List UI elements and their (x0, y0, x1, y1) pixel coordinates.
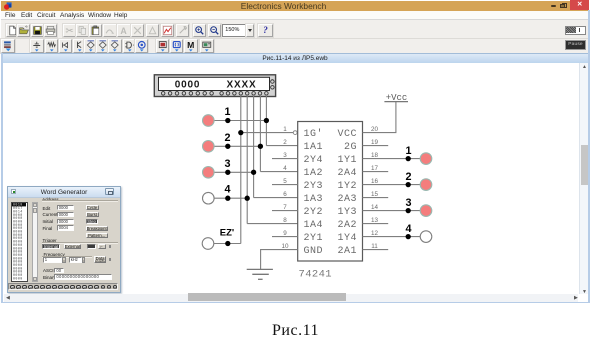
svg-text:10: 10 (281, 243, 289, 250)
label EZ' (220, 228, 234, 239)
pause button (565, 40, 586, 50)
pin 5 stub (272, 184, 298, 186)
svg-text:2Y4: 2Y4 (304, 155, 324, 166)
pin 9 stub (272, 236, 298, 238)
svg-text:3: 3 (405, 197, 411, 209)
ground symbol (247, 269, 273, 279)
label 4 (left) (224, 184, 230, 196)
pin 11 stub (363, 249, 389, 251)
svg-text:1Y2: 1Y2 (337, 181, 357, 192)
svg-text:2A3: 2A3 (337, 194, 357, 205)
svg-text:2A1: 2A1 (337, 246, 357, 257)
svg-text:1Y4: 1Y4 (337, 233, 357, 244)
svg-text:12: 12 (371, 230, 379, 237)
wire to pin 8 (247, 223, 298, 225)
wire vertical V3 (data bit 3) (253, 95, 255, 198)
toolbar row 2 (1, 38, 589, 53)
IC U1 part number 74241 (299, 269, 333, 281)
node dot probe 3 (225, 170, 230, 175)
svg-text:9: 9 (283, 230, 287, 237)
wire probe 4 row (214, 197, 248, 199)
pin number labels (left side) (281, 126, 289, 250)
svg-text:16: 16 (371, 178, 379, 185)
wire pin 20 to +Vcc (363, 102, 396, 133)
label 3 (right) (405, 197, 411, 209)
junction dot row 4/V2 (245, 196, 250, 201)
label 1 (right) (405, 145, 411, 157)
svg-text:15: 15 (371, 191, 379, 198)
label 2 (right) (405, 171, 411, 183)
probe indicator 4 (right) (420, 231, 432, 243)
wire vertical V4 (data bit 2) (259, 95, 261, 172)
svg-text:74241: 74241 (299, 269, 333, 281)
pin 3 stub (272, 158, 298, 160)
svg-text:2A2: 2A2 (337, 220, 357, 231)
toolbar row 1 (1, 19, 589, 39)
junction dot pin1/V1 (238, 130, 243, 135)
node dot probe 1 (225, 118, 230, 123)
junction dot row 3/V3 (251, 170, 256, 175)
probe indicator 2 (left) (203, 141, 215, 153)
svg-text:VCC: VCC (337, 129, 357, 140)
svg-text:8: 8 (283, 217, 287, 224)
svg-text:6: 6 (283, 191, 287, 198)
junction dot row 2/V4 (258, 144, 263, 149)
svg-text:20: 20 (371, 126, 379, 133)
label 4 (right) (405, 223, 411, 235)
svg-text:+Vcc: +Vcc (386, 93, 408, 103)
wire vertical V5 (data bit 1) (265, 95, 267, 146)
svg-text:XXXX: XXXX (227, 79, 257, 90)
node dot output 2 (406, 182, 411, 187)
wire probe 3 row (214, 171, 254, 173)
svg-text:4: 4 (224, 184, 230, 196)
svg-text:1A4: 1A4 (304, 220, 324, 231)
svg-text:1A1: 1A1 (304, 142, 324, 153)
application window titlebar (1, 1, 589, 11)
wire probe 2 row (214, 145, 260, 147)
wire pin 14 to output probe 3 (363, 210, 421, 212)
node dot output 3 (406, 208, 411, 213)
label 2 (left) (224, 132, 230, 144)
svg-text:4: 4 (405, 223, 411, 235)
svg-text:14: 14 (371, 204, 379, 211)
power switch (565, 26, 587, 35)
svg-text:17: 17 (371, 165, 379, 172)
svg-text:1G': 1G' (304, 128, 324, 140)
svg-text:19: 19 (371, 139, 379, 146)
svg-text:2Y3: 2Y3 (304, 181, 324, 192)
pin 1 active-low bubble (293, 131, 297, 135)
svg-text:0000: 0000 (13, 276, 23, 280)
node dot probe 2 (225, 144, 230, 149)
label 3 (left) (224, 158, 230, 170)
svg-text:2Y1: 2Y1 (304, 233, 324, 244)
probe indicator 2 (right) (420, 179, 432, 191)
svg-text:11: 11 (371, 243, 378, 250)
op IC U1 74241 body (298, 122, 363, 262)
app icon (4, 2, 12, 10)
svg-text:2: 2 (283, 139, 287, 146)
svg-text:0000: 0000 (175, 79, 200, 90)
probe indicator 1 (left) (203, 115, 215, 127)
svg-text:1: 1 (405, 145, 411, 157)
wire to pin 6 (254, 197, 298, 199)
svg-text:1A3: 1A3 (304, 194, 324, 205)
wire to pin 1 (1G) (241, 132, 293, 134)
wire vertical V2 (data bit 4) (246, 95, 248, 224)
probe indicator 3 (left) (203, 167, 215, 179)
wire probe 1 row (214, 120, 267, 122)
pin 7 stub (272, 210, 298, 212)
window borders (1, 53, 3, 304)
svg-text:18: 18 (371, 152, 379, 159)
wire to pin 4 (260, 171, 297, 173)
figure caption (0, 322, 591, 340)
probe indicator 3 (right) (420, 205, 432, 217)
label 1 (left) (224, 106, 230, 118)
node dot probe EZ (225, 241, 230, 246)
svg-text:4: 4 (283, 165, 287, 172)
vertical scrollbar (579, 63, 590, 294)
window buttons (570, 0, 589, 10)
svg-text:1: 1 (283, 126, 287, 133)
document title bar (1, 53, 589, 65)
svg-text:3: 3 (283, 152, 287, 159)
wire vertical V1 (enable bit) (240, 95, 242, 244)
word generator panel (7, 186, 121, 293)
wire probe EZ row (214, 243, 241, 245)
svg-text:1: 1 (224, 106, 230, 118)
pin number labels (right side) (371, 126, 379, 250)
node dot probe 4 (225, 196, 230, 201)
pin 13 stub (363, 223, 389, 225)
wire to pin 2 (266, 145, 297, 147)
svg-text:2: 2 (224, 132, 230, 144)
pin 17 stub (363, 171, 389, 173)
wire pin 10 to ground (261, 250, 298, 270)
svg-text:7: 7 (283, 204, 287, 211)
svg-text:2Y2: 2Y2 (304, 207, 324, 218)
svg-text:GND: GND (304, 246, 324, 257)
probe indicator 4 (left) (203, 192, 215, 204)
probe indicator EZ (white) (202, 238, 214, 250)
node dot output 4 (406, 234, 411, 239)
svg-text:13: 13 (371, 217, 379, 224)
svg-text:3: 3 (224, 158, 230, 170)
svg-text:1Y1: 1Y1 (337, 155, 357, 166)
node dot output 1 (406, 156, 411, 161)
instrument XWG1 word generator icon (154, 75, 275, 97)
pin 15 stub (363, 197, 389, 199)
wire pin 16 to output probe 2 (363, 184, 421, 186)
junction dot row 1/V5 (264, 118, 269, 123)
horizontal scrollbar (4, 294, 578, 302)
svg-text:2: 2 (405, 171, 411, 183)
wire pin 12 to output probe 4 (363, 236, 421, 238)
svg-text:2A4: 2A4 (337, 168, 357, 179)
svg-text:2G: 2G (344, 142, 357, 153)
wire pin 18 to output probe 1 (363, 158, 421, 160)
svg-text:1Y3: 1Y3 (337, 207, 357, 218)
svg-text:EZ': EZ' (220, 228, 234, 239)
workspace (3, 63, 579, 294)
svg-text:5: 5 (283, 178, 287, 185)
svg-text:1A2: 1A2 (304, 168, 324, 179)
+Vcc supply symbol (384, 93, 408, 103)
probe indicator 1 (right) (420, 153, 432, 165)
pin 19 stub (363, 145, 389, 147)
menu bar (1, 11, 589, 19)
IC U1 pin name labels (304, 128, 358, 257)
